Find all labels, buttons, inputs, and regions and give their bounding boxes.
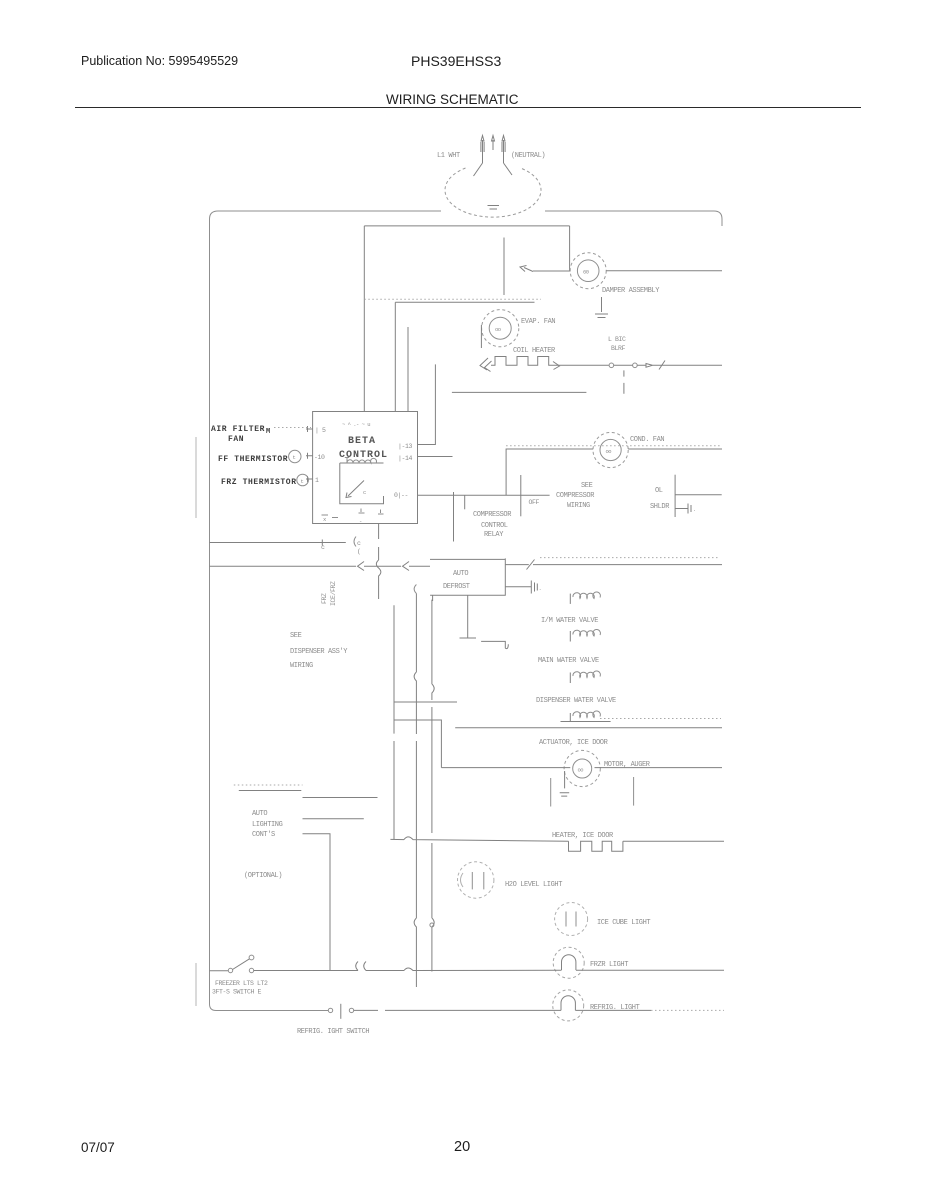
actuator rail dotted echo xyxy=(600,718,721,720)
wire: floating neutral segment xyxy=(452,391,587,393)
valve feed step wire xyxy=(481,641,508,648)
svg-text:COMPRESSOR: COMPRESSOR xyxy=(473,511,512,519)
pin J-10 stub and label xyxy=(306,453,313,459)
evaporator fan motor outer dashed circle xyxy=(482,310,519,347)
svg-text:M: M xyxy=(266,428,271,436)
outer border left edge xyxy=(209,219,211,1004)
header publication number xyxy=(81,54,238,68)
condenser fan motor inner circle xyxy=(600,439,621,460)
wire: ice door heater rail left xyxy=(390,837,568,841)
svg-text:.: . xyxy=(539,585,542,592)
svg-text:HEATER, ICE DOOR: HEATER, ICE DOOR xyxy=(552,832,614,840)
svg-text:ICE CUBE LIGHT: ICE CUBE LIGHT xyxy=(597,919,650,927)
svg-text:t: t xyxy=(293,454,296,461)
svg-text:| 5: | 5 xyxy=(315,427,326,434)
defrost feed continues xyxy=(364,565,401,567)
svg-text:I/M WATER VALVE: I/M WATER VALVE xyxy=(541,617,598,625)
svg-text:FRZ: FRZ xyxy=(321,593,328,604)
freezer lamp loop xyxy=(562,955,576,970)
wire: damper to right border xyxy=(606,270,722,272)
wire: auger to right border xyxy=(595,767,723,769)
control bottom pin ticks xyxy=(322,509,384,518)
wire: defrost box drop right with T bar xyxy=(460,595,477,638)
coil heater element (square pulses) xyxy=(491,357,560,366)
FF thermistor circle xyxy=(289,450,301,462)
svg-text:0|--: 0|-- xyxy=(394,492,408,499)
harness vertical V3 xyxy=(432,600,434,972)
damper assembly motor inner circle xyxy=(577,260,599,282)
refrig light switch xyxy=(328,1008,332,1012)
ground symbol under damper xyxy=(595,297,608,318)
power plug body flare right xyxy=(504,163,513,175)
wire: cond fan to right border xyxy=(628,448,722,450)
coil heater right connector chevron xyxy=(553,362,560,370)
wire: auger feed xyxy=(441,767,570,769)
svg-text:|-14: |-14 xyxy=(398,455,413,462)
wire: bimetal to right border with break xyxy=(637,361,722,370)
svg-text:(OPTIONAL): (OPTIONAL) xyxy=(244,872,282,880)
svg-text:RELAY: RELAY xyxy=(484,531,504,539)
svg-text:BETA: BETA xyxy=(348,436,376,447)
wire: vertical to control pin 1 xyxy=(394,302,396,411)
svg-text:1: 1 xyxy=(315,477,319,484)
header model number xyxy=(411,53,501,69)
svg-text:(NEUTRAL): (NEUTRAL) xyxy=(511,152,545,160)
stray registration dash lower left xyxy=(195,963,197,1006)
bimetal actuator tick xyxy=(623,370,625,393)
rail connector tick xyxy=(321,540,323,546)
svg-text:COMPRESSOR: COMPRESSOR xyxy=(556,492,595,500)
svg-text:CONTROL: CONTROL xyxy=(339,450,388,461)
wire: control pin to compressor relay xyxy=(418,494,550,496)
damper assembly motor outer dashed circle xyxy=(570,253,606,289)
wire: heater to defrost bimetal xyxy=(560,364,609,366)
power plug prong right (NEUTRAL) xyxy=(502,136,505,164)
compressor relay bracket xyxy=(464,495,466,509)
footer page number 20 xyxy=(454,1139,470,1155)
auger motor outer dashed circle xyxy=(564,750,600,786)
wire: right feed vertical down to damper switch xyxy=(569,226,571,271)
I/M water valve coil xyxy=(569,594,571,604)
wire: vertical relay to defrost row xyxy=(453,492,455,542)
wire: refrig rail xyxy=(354,1009,651,1011)
coil heater left connector chevrons xyxy=(480,358,492,372)
damper door switch arrow xyxy=(520,266,533,272)
stray registration dash upper left xyxy=(195,437,197,518)
inner relay coil squiggle xyxy=(347,458,377,463)
auto lighting lead 2 xyxy=(303,797,378,799)
svg-text:AUTO: AUTO xyxy=(252,810,267,818)
auto lighting lead 3 xyxy=(303,818,364,820)
inner relay switch arm xyxy=(346,481,364,498)
wire: vertical stub to J-13 xyxy=(418,364,436,444)
svg-text:MAIN WATER VALVE: MAIN WATER VALVE xyxy=(538,657,599,665)
svg-text:60: 60 xyxy=(583,269,589,276)
wire: cross tie upper xyxy=(394,701,457,703)
svg-text:-10: -10 xyxy=(314,454,325,461)
svg-text:DISPENSER ASS'Y: DISPENSER ASS'Y xyxy=(290,648,348,656)
svg-text:~ ^ .- ~ u: ~ ^ .- ~ u xyxy=(342,421,370,428)
defrost bimetal contact xyxy=(609,363,614,368)
svg-text:|-13: |-13 xyxy=(398,443,413,450)
auger motor inner circle xyxy=(573,759,592,778)
main water valve coil xyxy=(569,631,571,642)
BETA control board box xyxy=(313,412,418,524)
wire: top feed horizontal xyxy=(364,225,569,227)
svg-text:oo: oo xyxy=(578,767,584,774)
svg-text:H2O LEVEL LIGHT: H2O LEVEL LIGHT xyxy=(505,881,562,889)
H2O lamp filament bars xyxy=(472,872,484,889)
harness vertical V2 xyxy=(414,594,416,988)
svg-text:SHLDR: SHLDR xyxy=(650,503,670,511)
ground marks inside receptacle xyxy=(488,206,500,210)
wire: defrost lower stub to connector xyxy=(505,586,531,588)
harness vertical V1 xyxy=(393,605,395,839)
power plug prong left (LINE) xyxy=(481,136,484,164)
svg-text:3FT-S SWITCH E: 3FT-S SWITCH E xyxy=(212,989,262,996)
svg-text:DAMPER ASSEMBLY: DAMPER ASSEMBLY xyxy=(602,287,660,295)
rail: defrost feed horizontal xyxy=(210,565,357,567)
ice door actuator coil xyxy=(569,713,571,722)
auto lighting dashed lead xyxy=(234,784,303,786)
svg-text:MOTOR, AUGER: MOTOR, AUGER xyxy=(604,761,651,769)
refrig rail dotted tail xyxy=(651,1009,724,1011)
freezer light lamp dashed circle xyxy=(553,947,584,978)
power plug prong center (ground) xyxy=(492,136,495,151)
plug receptacle dashed circle xyxy=(445,168,541,217)
defrost feed chevron 2 xyxy=(403,562,410,571)
pin J-1 stub and label xyxy=(306,476,313,482)
svg-text:c: c xyxy=(321,544,325,551)
footer date 07/07 xyxy=(81,1140,115,1155)
svg-text:COIL HEATER: COIL HEATER xyxy=(513,347,556,355)
svg-text:CONT'S: CONT'S xyxy=(252,831,275,839)
rail end curl xyxy=(354,537,356,547)
outer border top edge (left of plug) xyxy=(218,210,441,212)
outer border top-left rounded corner xyxy=(210,211,219,219)
svg-text:ICE/FRZ: ICE/FRZ xyxy=(330,581,337,606)
auto lighting lead 4 with corner drop xyxy=(303,834,331,971)
svg-text:SEE: SEE xyxy=(290,632,302,640)
overload protector bar xyxy=(674,475,676,517)
control relay inner box xyxy=(340,463,384,504)
svg-text:WIRING: WIRING xyxy=(290,662,313,670)
H2O level light lamp dashed circle xyxy=(458,862,494,898)
ice cube light lamp dashed circle xyxy=(555,903,588,936)
wire: defrost out with slash break xyxy=(505,560,722,570)
wire: defrost box drop left xyxy=(432,595,434,601)
auto defrost timer box xyxy=(430,558,505,595)
svg-text:REFRIG. IGHT SWITCH: REFRIG. IGHT SWITCH xyxy=(297,1028,369,1036)
svg-text:AIR FILTER: AIR FILTER xyxy=(211,425,265,434)
wire: connector stub J-2 xyxy=(503,238,505,296)
harness vertical V2 top curl xyxy=(414,585,416,594)
refrig light lamp dashed circle xyxy=(553,990,584,1021)
wire: pin J-14 stub xyxy=(418,456,453,458)
svg-text:WIRING: WIRING xyxy=(567,502,590,510)
refrig lamp loop xyxy=(561,996,575,1011)
svg-text:CONTROL: CONTROL xyxy=(481,522,508,530)
svg-text:DISPENSER WATER VALVE: DISPENSER WATER VALVE xyxy=(536,697,616,705)
dashed harness below control xyxy=(376,524,381,600)
auger ground xyxy=(560,771,570,796)
H2O lamp left arc xyxy=(461,873,464,887)
rail: upper harness horizontal xyxy=(210,542,346,544)
wire: mid horizontal xyxy=(395,301,534,303)
wire: vertical to control pin 2 xyxy=(407,327,409,412)
dispenser water valve coil xyxy=(569,673,571,684)
wire: overload to right border xyxy=(675,494,722,496)
wire: switch to damper xyxy=(533,270,571,272)
svg-text:COND. FAN: COND. FAN xyxy=(630,436,664,444)
wire: freezer light rail left xyxy=(210,970,229,972)
wire: left feed vertical down to control xyxy=(363,226,365,412)
svg-text:OFF: OFF xyxy=(529,499,540,506)
wire: freezer rail middle xyxy=(254,962,724,971)
freezer light switch xyxy=(228,968,232,972)
inner box top tick xyxy=(345,458,349,463)
power plug body flare left xyxy=(474,163,483,176)
svg-text:FAN: FAN xyxy=(228,435,244,444)
auto lighting lead 1 xyxy=(239,790,301,792)
outer border top edge (right of plug) xyxy=(545,210,714,212)
cabinet dotted line xyxy=(364,298,541,300)
run capacitor stub xyxy=(675,504,691,514)
svg-text:OL: OL xyxy=(655,487,663,495)
pin J-5 stub and label xyxy=(306,426,313,432)
title WIRING SCHEMATIC xyxy=(386,92,519,107)
dashed wire M to control xyxy=(274,427,311,429)
svg-text:FREEZER LTS LT2: FREEZER LTS LT2 xyxy=(215,980,268,987)
defrost feed to auto defrost box xyxy=(409,565,430,567)
auger bracket bar right xyxy=(633,777,635,806)
svg-text:-: - xyxy=(359,518,362,525)
svg-text:SEE: SEE xyxy=(581,482,593,490)
outer border bottom edge to refrig switch xyxy=(216,1010,328,1012)
svg-text:FRZR LIGHT: FRZR LIGHT xyxy=(590,961,628,969)
wire: cross tie lower to auger xyxy=(394,720,441,768)
compressor relay contact bar xyxy=(520,475,522,516)
svg-text:FRZ THERMISTOR: FRZ THERMISTOR xyxy=(221,478,297,487)
defrost feed chevron 1 xyxy=(358,562,365,571)
svg-text:LIGHTING: LIGHTING xyxy=(252,821,283,829)
wire: ice door heater rail right xyxy=(623,840,724,842)
svg-text:FF THERMISTOR: FF THERMISTOR xyxy=(218,455,288,464)
svg-text:oo: oo xyxy=(495,326,501,333)
svg-text:oo: oo xyxy=(606,448,612,455)
V3 junction dot xyxy=(430,923,434,927)
outer border top-right rounded corner stub xyxy=(714,211,722,226)
svg-text:L BIC: L BIC xyxy=(608,336,626,343)
svg-text:.: . xyxy=(693,506,696,513)
svg-text:x: x xyxy=(323,516,327,523)
harness connector bars xyxy=(531,581,537,594)
auger bracket bar left xyxy=(550,778,552,807)
svg-text:L1 WHT: L1 WHT xyxy=(437,152,460,160)
condenser fan motor outer dashed circle xyxy=(593,432,628,467)
defrost dotted echo xyxy=(540,557,720,559)
title underline xyxy=(75,107,861,108)
FRZ thermistor circle xyxy=(297,474,309,486)
svg-text:t: t xyxy=(301,478,304,485)
wire: relay riser to cond fan xyxy=(506,449,593,495)
svg-text:EVAP. FAN: EVAP. FAN xyxy=(521,318,555,326)
outer border bottom-left rounded corner xyxy=(210,1004,217,1011)
ice cube lamp filament xyxy=(566,912,576,927)
svg-text:AUTO: AUTO xyxy=(453,570,468,578)
svg-text:BLRF: BLRF xyxy=(611,345,626,352)
svg-text:(: ( xyxy=(357,548,361,555)
evaporator fan motor inner circle xyxy=(489,317,511,339)
wire through actuator coil xyxy=(561,721,611,723)
svg-text:DEFROST: DEFROST xyxy=(443,583,470,591)
evap fan contact bar xyxy=(480,325,482,348)
ice door heater element (down pulses) xyxy=(569,841,623,851)
svg-text:c: c xyxy=(357,540,361,547)
wire: actuator rail to right border xyxy=(455,727,722,729)
cond fan dotted echo line xyxy=(506,445,720,447)
svg-text:ACTUATOR, ICE DOOR: ACTUATOR, ICE DOOR xyxy=(539,739,609,747)
svg-text:c: c xyxy=(363,489,366,496)
